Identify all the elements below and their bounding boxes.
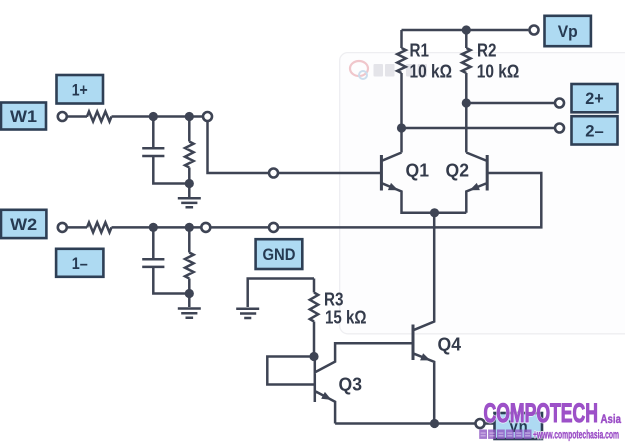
svg-text:2+: 2+ xyxy=(585,89,604,108)
svg-text:GND: GND xyxy=(262,245,295,264)
svg-text:Q2: Q2 xyxy=(446,160,470,181)
svg-text:Vp: Vp xyxy=(558,22,578,41)
svg-text:10 kΩ: 10 kΩ xyxy=(477,61,520,82)
svg-text:1+: 1+ xyxy=(72,80,88,99)
svg-text:COMPOTECH: COMPOTECH xyxy=(484,398,599,428)
svg-text:15 kΩ: 15 kΩ xyxy=(325,307,367,328)
svg-text:W1: W1 xyxy=(10,107,37,126)
svg-text:Q1: Q1 xyxy=(406,160,430,181)
svg-text:1–: 1– xyxy=(72,254,88,273)
svg-text:10 kΩ: 10 kΩ xyxy=(410,61,453,82)
svg-text:2–: 2– xyxy=(585,121,604,140)
svg-text:R2: R2 xyxy=(477,40,497,61)
svg-text:+www.compotechasia.com: +www.compotechasia.com xyxy=(533,430,619,442)
svg-text:W2: W2 xyxy=(10,215,37,234)
svg-text:Asia: Asia xyxy=(601,412,622,426)
svg-text:R1: R1 xyxy=(410,40,430,61)
svg-text:Q4: Q4 xyxy=(438,334,462,355)
svg-text:Q3: Q3 xyxy=(339,374,363,395)
